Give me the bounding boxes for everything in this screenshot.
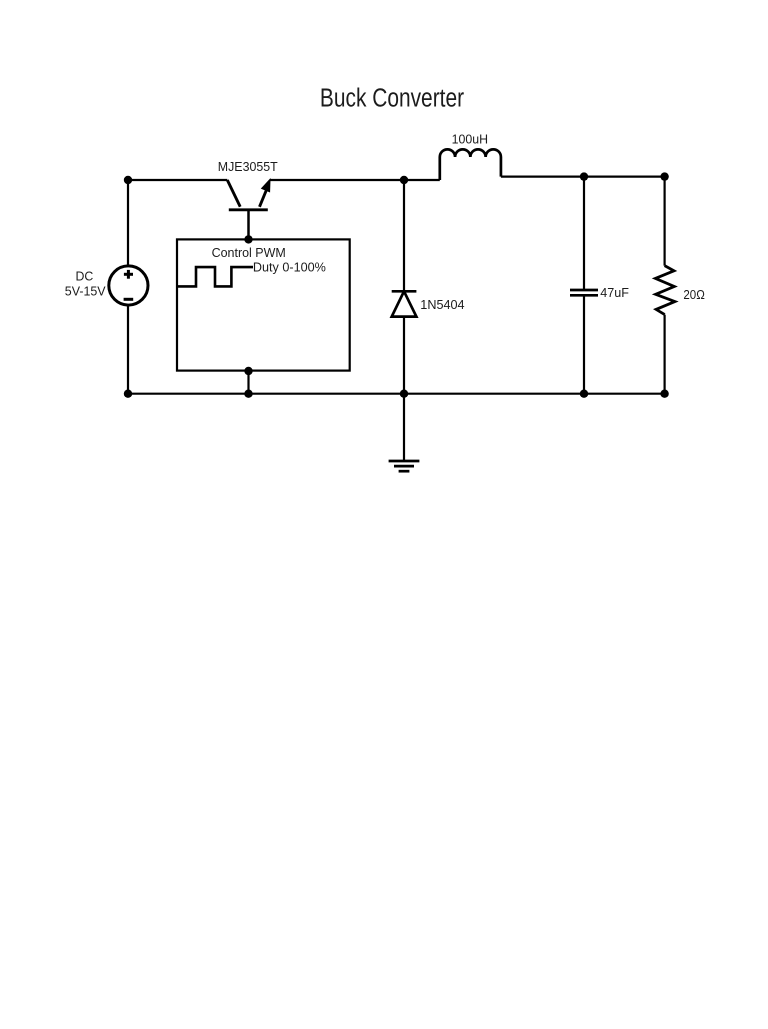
svg-text:47uF: 47uF (600, 285, 629, 300)
svg-text:5V-15V: 5V-15V (65, 284, 106, 299)
svg-text:Buck Converter: Buck Converter (320, 85, 465, 113)
svg-text:Control PWM: Control PWM (212, 245, 286, 260)
svg-text:20Ω: 20Ω (683, 287, 705, 302)
svg-text:100uH: 100uH (452, 131, 488, 146)
svg-text:1N5404: 1N5404 (420, 297, 464, 312)
svg-text:MJE3055T: MJE3055T (218, 159, 278, 174)
svg-text:DC: DC (76, 268, 94, 283)
svg-text:Duty 0-100%: Duty 0-100% (253, 259, 326, 274)
